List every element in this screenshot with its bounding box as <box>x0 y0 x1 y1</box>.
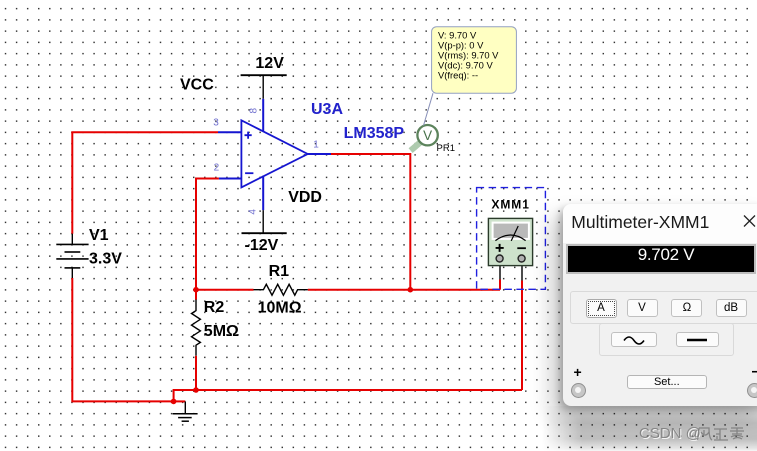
button V <box>627 299 658 317</box>
label PR1 <box>437 143 455 154</box>
svg-text:R2: R2 <box>204 299 225 316</box>
pin 1 output stub (blue) <box>308 153 332 155</box>
signal group box <box>599 323 734 356</box>
svg-text:U3A: U3A <box>311 101 343 118</box>
svg-text:3.3V: 3.3V <box>89 251 122 268</box>
XMM1 instrument label <box>492 197 530 211</box>
plus terminal label <box>574 364 582 380</box>
button A (selected) <box>586 299 617 318</box>
svg-text:R1: R1 <box>269 263 290 280</box>
title bar <box>563 204 757 243</box>
svg-text:LM358P: LM358P <box>344 125 405 142</box>
button AC (sine) <box>611 332 658 347</box>
svg-text:1: 1 <box>313 140 319 151</box>
svg-text:XMM1: XMM1 <box>492 197 530 211</box>
readout display <box>566 244 755 274</box>
battery V1 <box>56 234 88 278</box>
pin 3 number <box>213 118 219 129</box>
svg-text:8: 8 <box>248 108 259 114</box>
multimeter window XMM1 <box>563 204 757 406</box>
svg-text:10MΩ: 10MΩ <box>258 300 302 317</box>
label R2 <box>204 299 225 316</box>
pin 3 stub (blue) <box>218 131 242 133</box>
junction: ground node <box>171 399 177 405</box>
resistor R1 (horizontal) <box>254 284 308 295</box>
value 5MΩ <box>204 323 239 340</box>
svg-text:4: 4 <box>248 209 259 215</box>
wire: ground node to ground stub <box>174 400 186 402</box>
close button X <box>743 215 756 227</box>
value 3.3V <box>89 251 122 268</box>
junction: R2 bottom node <box>193 387 199 393</box>
label V1 <box>89 227 109 244</box>
VCC power symbol (+12V rail) <box>241 75 287 131</box>
wire: V1 negative to ground node <box>72 278 173 401</box>
button dB <box>716 299 747 317</box>
probe tooltip connector <box>424 93 434 125</box>
label VDD <box>288 189 322 206</box>
resistor R2 (vertical) <box>192 300 201 391</box>
op-amp U3A triangle <box>241 120 307 187</box>
label U3A <box>311 101 343 118</box>
VDD power symbol (-12V rail) <box>242 176 287 234</box>
svg-text:2: 2 <box>214 162 220 173</box>
svg-text:V1: V1 <box>89 227 109 244</box>
ground <box>173 401 198 421</box>
left terminal jack <box>571 383 586 398</box>
svg-text:-12V: -12V <box>245 237 279 254</box>
svg-text:VDD: VDD <box>288 189 322 206</box>
value 12V <box>255 55 284 72</box>
probe tooltip box <box>432 27 517 94</box>
junction: output/bus node <box>408 287 414 293</box>
window shadow band <box>542 406 757 451</box>
svg-text:12V: 12V <box>255 55 284 72</box>
svg-text:V(freq): --: V(freq): -- <box>438 69 478 80</box>
pin 8 number <box>248 108 259 114</box>
minus terminal label <box>752 363 757 381</box>
wire: V1 positive up to node at pin3 level <box>71 132 73 234</box>
label R1 <box>269 263 290 280</box>
readout value <box>572 245 757 265</box>
label LM358P <box>344 125 405 142</box>
wire: jog from bottom node to ground node <box>174 390 196 401</box>
wire: feedback node up to pin 2 <box>196 179 219 300</box>
wire: main bus right segment (R1 to XMM1 + terminal) <box>308 289 500 291</box>
junction: R1/R2/pin2 node <box>193 287 199 293</box>
wire: bottom long run to R2/V1 node <box>196 389 522 391</box>
svg-text:5MΩ: 5MΩ <box>204 323 239 340</box>
wire: XMM1 - terminal drop <box>521 263 523 391</box>
pin 2 stub (blue) <box>219 178 242 180</box>
XMM1 meter symbol <box>488 218 532 265</box>
label VCC <box>180 77 214 94</box>
wire: XMM1 + terminal drop <box>499 263 501 290</box>
button Ω <box>671 299 702 317</box>
wire: horizontal to op-amp pin 3 <box>71 131 218 133</box>
button DC (flat line) <box>676 332 719 347</box>
value 10MΩ <box>258 300 302 317</box>
probe PR1 circle <box>417 125 437 145</box>
pin 4 number <box>248 209 259 215</box>
wire: op-amp output to corner and down to bus <box>331 154 410 290</box>
probe PR1 handle <box>411 141 422 151</box>
right terminal jack <box>747 383 757 398</box>
svg-text:PR1: PR1 <box>437 143 455 154</box>
mode group box <box>570 291 757 325</box>
XMM1 selection box (dashed) <box>477 188 546 290</box>
pin 1 number <box>313 140 319 151</box>
svg-text:3: 3 <box>213 118 219 129</box>
svg-text:V: V <box>423 128 432 143</box>
watermark CSDN <box>639 425 701 442</box>
wire: main bus left segment (node to R1) <box>196 289 254 291</box>
Set button <box>627 375 708 389</box>
value -12V <box>245 237 279 254</box>
svg-text:VCC: VCC <box>180 77 214 94</box>
pin 2 number <box>214 162 220 173</box>
